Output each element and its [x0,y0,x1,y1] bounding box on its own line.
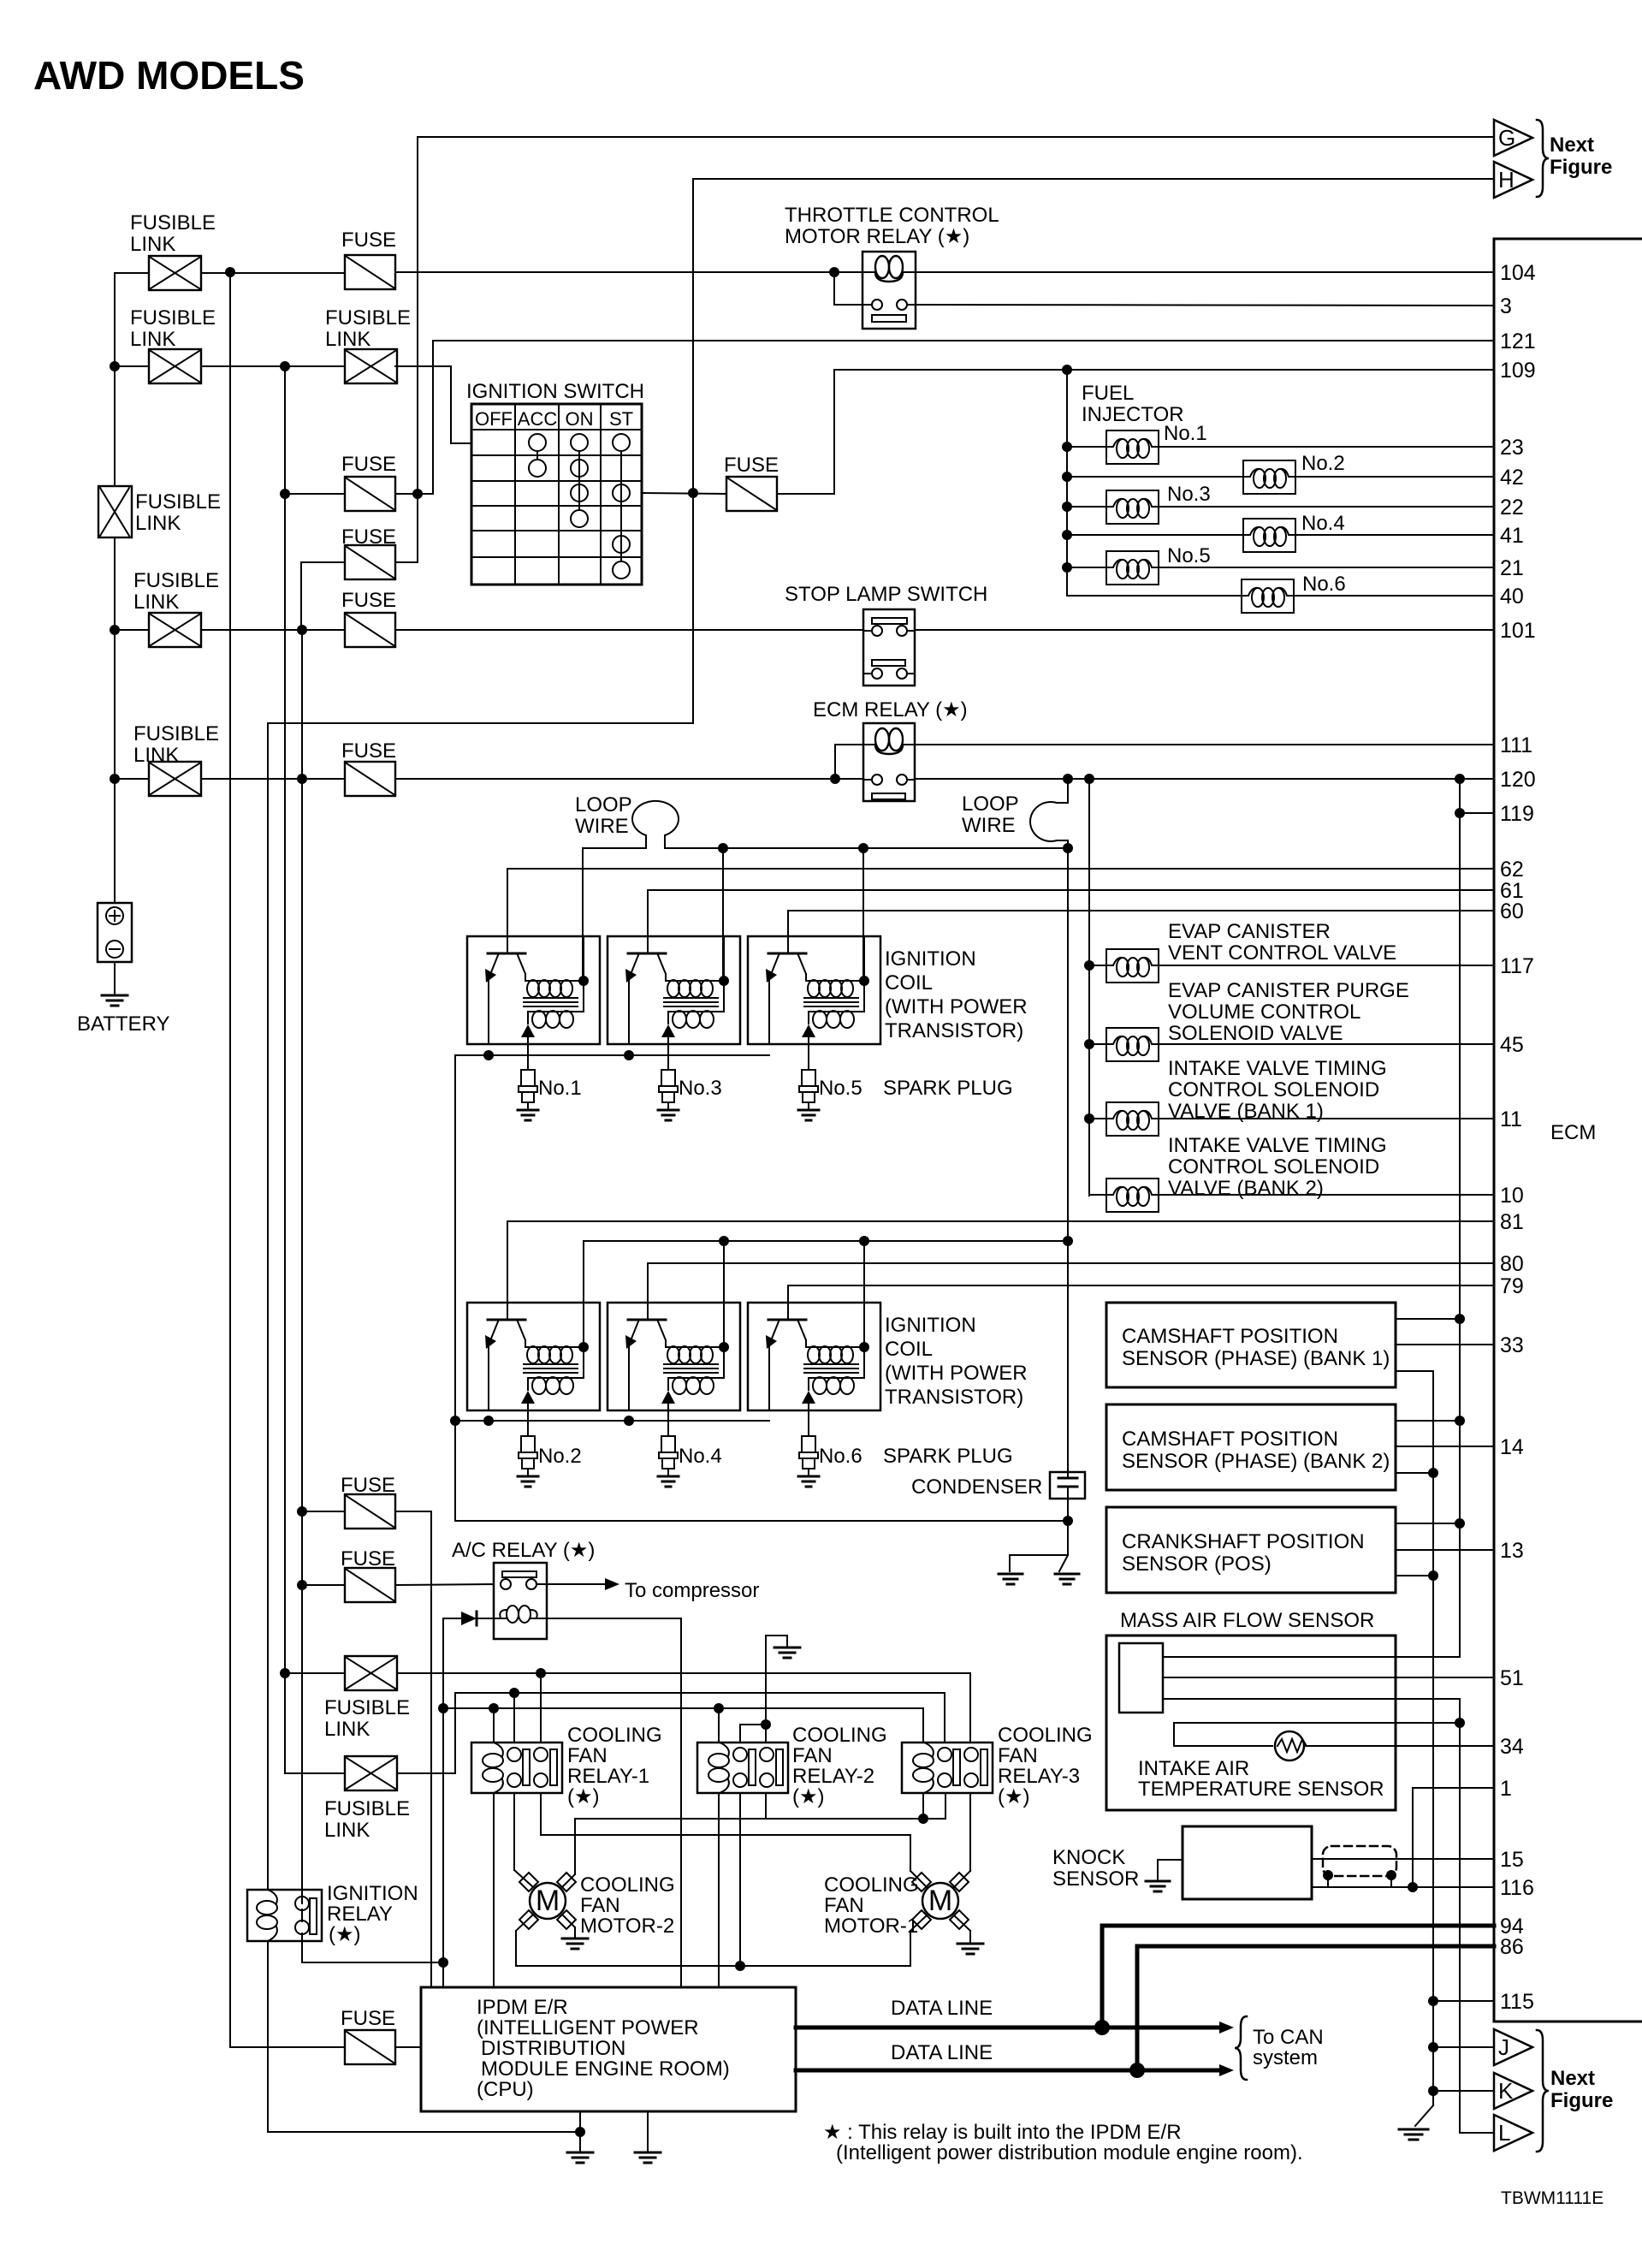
svg-text:VENT CONTROL VALVE: VENT CONTROL VALVE [1168,941,1396,965]
connector K [1433,2073,1532,2109]
svg-text:SENSOR (PHASE) (BANK 1): SENSOR (PHASE) (BANK 1) [1122,1347,1390,1370]
ignition coil module bank1 #3 [748,936,880,1044]
wire relay1 feeds [494,1673,541,1743]
fuse F5 [345,613,395,647]
throttle relay contact [862,300,916,322]
ignition coil module bank2 #2 [608,1303,740,1410]
svg-text:FUSIBLE: FUSIBLE [130,211,216,235]
label FUSE 3 [341,453,396,476]
wire fuse8 row [302,1584,494,1585]
wire 115 [1433,2000,1494,2002]
ignition coil module bank1 #1 [467,936,600,1044]
label COOLING FAN MOTOR-2 [580,1873,675,1938]
wire pin1 branch [1413,1788,1494,1887]
connector H to next figure [1494,162,1532,198]
fuse F9 [345,2030,395,2064]
fuel injector No.4 [1067,519,1494,552]
wire 94 data line thick [1094,1926,1494,2035]
svg-text:FUSIBLE: FUSIBLE [133,569,219,592]
connector J [1433,2029,1532,2065]
label FUSE 9 [341,2007,395,2030]
ignition coil module bank2 #3 [748,1303,880,1410]
wire throttle relay pilot [834,272,1494,306]
fuse F8 [345,1568,395,1602]
svg-text:(WITH POWER: (WITH POWER [885,995,1028,1018]
label FUSE 1 [341,229,396,252]
wire coil bank2 supply bus [584,1236,1068,1345]
svg-text:K: K [1498,2078,1514,2104]
wire 15 shielded [1312,1858,1494,1860]
fusible link FL3 mid [345,349,397,383]
svg-text:SPARK PLUG: SPARK PLUG [883,1445,1013,1468]
svg-text:M: M [536,1885,560,1917]
loop wire 1 [583,801,1068,853]
label No.4 spark plug [679,1445,722,1468]
label solenoid 2 [1168,979,1409,1045]
knock sensor box [1183,1826,1312,1899]
svg-text:42: 42 [1500,466,1524,490]
spark plug No.6 [798,1410,819,1487]
svg-text:OFF: OFF [475,408,513,430]
svg-text:COOLING: COOLING [824,1873,919,1897]
svg-text:TRANSISTOR): TRANSISTOR) [885,1386,1023,1409]
wire sensor ground bus x=1675 [1428,1371,1438,2105]
svg-text:FAN: FAN [567,1744,608,1767]
ignition switch [471,404,642,585]
svg-text:FUSE: FUSE [341,589,396,612]
svg-text:FUSE: FUSE [341,739,396,763]
svg-text:EVAP CANISTER PURGE: EVAP CANISTER PURGE [1168,979,1409,1002]
label IGNITION RELAY [327,1882,418,1946]
svg-text:No.6: No.6 [1302,573,1346,596]
wire 119 [1455,808,1494,818]
label DATA LINE 2 [891,2041,993,2064]
wire coil bank2 emitter ground bus [450,1416,769,1521]
svg-text:22: 22 [1500,496,1524,520]
svg-text:LINK: LINK [135,512,181,535]
spark plug No.4 [658,1410,679,1487]
wire fan power bus 1978 [285,1688,945,1773]
wire relay3 coil bottom [922,1793,924,1819]
fuel injector No.1 [1067,430,1494,464]
title AWD MODELS [33,53,305,98]
label LOOP WIRE 1 [575,793,632,838]
svg-text:SOLENOID VALVE: SOLENOID VALVE [1168,1022,1343,1045]
svg-text:COIL: COIL [885,971,933,994]
wire 61 to coil No.3 base [648,890,1494,936]
label No.6 spark plug [819,1445,862,1468]
ignition coil module bank2 #1 [467,1303,600,1410]
intake air temperature thermistor [1174,1731,1494,1760]
svg-text:No.1: No.1 [1164,422,1207,445]
svg-text:(Intelligent power distributio: (Intelligent power distribution module e… [836,2141,1303,2164]
svg-text:MODULE ENGINE ROOM): MODULE ENGINE ROOM) [481,2057,730,2081]
svg-text:COOLING: COOLING [792,1724,887,1747]
svg-text:Next: Next [1550,2067,1595,2090]
solenoid valve coil 4 [1089,1179,1494,1212]
label FUEL INJECTOR [1082,382,1184,426]
ground motor-2 [562,1938,588,1949]
svg-text:(★): (★) [998,1785,1030,1808]
throttle relay coil [863,256,915,282]
label Next Figure top [1550,134,1612,179]
label COOLING FAN MOTOR-1 [824,1873,919,1938]
svg-text:RELAY: RELAY [327,1903,393,1926]
svg-text:A/C RELAY (★): A/C RELAY (★) [452,1539,595,1562]
svg-text:62: 62 [1500,858,1524,882]
A/C relay coil [494,1606,547,1623]
brace next figure bottom [1537,2030,1549,2152]
ground below condenser right [1055,1574,1079,1584]
label IPDM text [477,1996,730,2101]
fuse F4 [345,545,395,579]
label SPARK PLUG bank1 [883,1077,1013,1100]
svg-text:RELAY-2: RELAY-2 [792,1765,874,1788]
svg-text:FAN: FAN [998,1744,1038,1767]
svg-text:ECM RELAY (★): ECM RELAY (★) [813,698,968,721]
ground below condenser left [999,1574,1023,1584]
ECM box [1494,239,1642,2022]
connector L [1460,2115,1532,2151]
ignition relay coil [257,1890,277,1941]
svg-text:CAMSHAFT POSITION: CAMSHAFT POSITION [1122,1325,1338,1348]
svg-text:DATA LINE: DATA LINE [891,1997,993,2020]
wire A/C coil return down [547,1618,681,1987]
ECM relay contact [863,775,915,799]
svg-text:10: 10 [1500,1184,1524,1208]
stop lamp switch box [863,609,915,686]
wire ignition relay coil return [268,1941,585,2137]
svg-text:TEMPERATURE SENSOR: TEMPERATURE SENSOR [1138,1778,1384,1801]
brace next figure top [1537,120,1549,197]
svg-text:J: J [1498,2034,1509,2060]
spark plug No.5 [798,1044,819,1120]
label camshaft bank2 [1122,1428,1390,1473]
knock shield drains [1323,1870,1396,1887]
wire camshaft bank1 pins [1396,1319,1494,1371]
label FUSIBLE LINK 4 [133,569,219,614]
svg-text:23: 23 [1500,436,1524,460]
svg-text:To CAN: To CAN [1253,2026,1324,2049]
svg-text:STOP LAMP SWITCH: STOP LAMP SWITCH [785,583,987,606]
svg-text:MASS AIR FLOW SENSOR: MASS AIR FLOW SENSOR [1120,1609,1374,1632]
label To CAN system [1253,2026,1324,2069]
svg-text:COOLING: COOLING [567,1724,662,1747]
label A/C RELAY [452,1539,595,1562]
wire bus x=333 [280,366,290,1773]
svg-text:SPARK PLUG: SPARK PLUG [883,1077,1013,1100]
battery [98,903,132,1006]
connector G to next figure [1494,120,1532,156]
svg-text:WIRE: WIRE [575,815,629,838]
footnote line 1 [823,2121,1182,2144]
ground sensor bus [1399,2129,1428,2140]
data line 1 to CAN [796,2022,1234,2033]
wire A/C pilot down [438,1618,448,1987]
svg-text:FUSE: FUSE [341,2007,395,2030]
ignition relay box [247,1890,322,1941]
svg-text:3: 3 [1500,294,1512,318]
wire 60 to coil No.5 base [788,911,1494,936]
svg-text:111: 111 [1500,733,1532,757]
label solenoid 3 [1168,1057,1387,1123]
solenoid valve coil 2 [1089,1028,1494,1061]
ignition relay contacts [295,1897,317,1934]
label solenoid 4 [1168,1134,1387,1200]
svg-text:CONTROL SOLENOID: CONTROL SOLENOID [1168,1078,1379,1101]
wire 104 row [395,267,1494,277]
label TBWM1111E [1501,2188,1603,2208]
label To compressor [625,1579,759,1602]
wire fuse3 out to G and 121 [395,137,1494,562]
svg-text:SENSOR: SENSOR [1052,1867,1139,1891]
svg-text:Figure: Figure [1550,2089,1613,2112]
svg-text:No.4: No.4 [1301,512,1345,535]
wire fuse7 row [302,1511,431,1987]
wire bus x=269 battery to bottom fuse [229,272,231,2047]
svg-text:To compressor: To compressor [625,1579,759,1602]
svg-text:No.1: No.1 [538,1077,582,1100]
ground IPDM 2 [635,2152,661,2163]
wire IPDM ground 2 [647,2111,649,2152]
wire row B [115,361,345,371]
label STOP LAMP SWITCH [785,583,987,606]
label No.3 spark plug [679,1077,722,1100]
wire relay1 contactB to motor1 [541,1793,927,1887]
wire 80 to coil No.4 base [648,1263,1494,1303]
diode A/C relay [443,1612,494,1625]
svg-text:117: 117 [1500,954,1534,978]
fuse F1 [345,255,395,289]
sensor ground bus to ground [1415,2105,1433,2126]
fusible link FL2 [149,349,201,383]
label No.6 [1302,573,1346,596]
svg-text:VALVE (BANK 2): VALVE (BANK 2) [1168,1177,1324,1200]
wire 120 right [915,774,1494,784]
wire 62 to coil No.1 base [507,869,1494,936]
label FUSE 8 [341,1547,395,1570]
svg-text:33: 33 [1500,1333,1524,1357]
label IGNITION SWITCH [466,380,644,403]
loop wire 2 [1030,779,1073,1472]
svg-text:INTAKE VALVE TIMING: INTAKE VALVE TIMING [1168,1057,1387,1080]
wire ECM relay coil pilot [835,745,863,780]
ignition switch column headers [475,408,633,430]
svg-text:No.5: No.5 [819,1077,862,1100]
wire fan power bus 1955 [285,1668,970,1743]
svg-text:TBWM1111E: TBWM1111E [1501,2188,1603,2208]
cooling fan motor-1 [912,1873,969,1929]
svg-text:109: 109 [1500,359,1536,383]
wire relay1 coil to IPDM [493,1793,495,1987]
label FUSIBLE LINK vertical [135,490,221,535]
svg-text:CONDENSER: CONDENSER [911,1475,1042,1499]
wire relay2 contactB down [765,1793,767,1819]
svg-text:MOTOR-2: MOTOR-2 [580,1915,674,1938]
svg-text:(★): (★) [329,1923,361,1946]
svg-text:No.2: No.2 [538,1445,582,1468]
camshaft position sensor bank2 box [1106,1404,1396,1490]
svg-text:INTAKE VALVE TIMING: INTAKE VALVE TIMING [1168,1134,1387,1157]
fuel injector No.5 [1067,551,1494,585]
svg-text:IGNITION: IGNITION [885,947,976,971]
wire MAF ground branch [1163,1699,1465,2133]
ECM relay box [863,723,915,801]
svg-text:21: 21 [1500,556,1524,580]
label No.2 spark plug [538,1445,582,1468]
svg-text:LINK: LINK [324,1819,370,1842]
label COOLING FAN RELAY-2 [792,1724,887,1808]
svg-text:FUSIBLE: FUSIBLE [133,722,219,745]
label FUSIBLE LINK 6 [324,1696,410,1741]
svg-text:RELAY-3: RELAY-3 [998,1765,1080,1788]
svg-text:DISTRIBUTION: DISTRIBUTION [481,2037,625,2060]
wire ignition ON down path [268,493,693,1890]
solenoid valve coil 1 [1089,949,1494,983]
svg-text:(★): (★) [792,1785,825,1808]
cooling fan motor-2 [519,1873,576,1929]
label DATA LINE 1 [891,1997,993,2020]
svg-text:79: 79 [1500,1274,1524,1298]
label No.1 [1164,422,1207,445]
fusible link FL1 [149,256,201,290]
wire IPDM ground 1 [579,2111,581,2152]
svg-text:ACC: ACC [518,408,558,430]
svg-text:ON: ON [566,408,594,430]
svg-text:IGNITION: IGNITION [327,1882,418,1905]
label LOOP WIRE 2 [962,793,1019,837]
fuel injector No.3 [1067,490,1494,524]
svg-text:CONTROL SOLENOID: CONTROL SOLENOID [1168,1155,1379,1179]
label SPARK PLUG bank2 [883,1445,1013,1468]
svg-text:(★): (★) [567,1785,600,1808]
wire intake air temp loop [1174,1723,1460,1746]
svg-text:LINK: LINK [325,328,370,351]
svg-text:15: 15 [1500,1848,1524,1872]
label No.4 [1301,512,1345,535]
wire bus x=353 [297,625,307,1903]
wire ignition ground bus [455,1516,1073,1526]
svg-text:14: 14 [1500,1435,1524,1459]
svg-text:FUSE: FUSE [341,1547,395,1570]
svg-text:LINK: LINK [130,233,175,256]
svg-text:116: 116 [1500,1876,1534,1900]
label KNOCK SENSOR [1052,1846,1139,1891]
wire injector feed bus [1062,370,1072,596]
svg-text:LOOP: LOOP [962,793,1019,816]
label FUSIBLE LINK 5 [133,722,219,767]
label No.5 [1167,544,1211,567]
svg-text:41: 41 [1500,524,1524,548]
svg-text:120: 120 [1500,768,1536,792]
wire battery positive bus x=134 [114,273,116,903]
label No.1 spark plug [538,1077,582,1100]
svg-text:FUSE: FUSE [724,454,779,477]
svg-text:LINK: LINK [133,591,179,614]
ground IPDM 1 [567,2152,593,2163]
ECM label [1550,1121,1596,1144]
svg-text:BATTERY: BATTERY [77,1012,169,1036]
svg-text:FAN: FAN [792,1744,833,1767]
svg-text:104: 104 [1500,261,1536,285]
svg-text:IPDM E/R: IPDM E/R [477,1996,568,2019]
svg-text:LINK: LINK [324,1718,370,1741]
svg-text:SENSOR (PHASE) (BANK 2): SENSOR (PHASE) (BANK 2) [1122,1450,1390,1473]
label FUSE 6 [341,739,396,763]
ECM pin number labels [1500,261,1536,2014]
spark plug No.3 [658,1044,679,1120]
label FUSIBLE LINK 1 [130,211,216,256]
svg-text:EVAP CANISTER: EVAP CANISTER [1168,920,1331,943]
wire MAF to 120 net [1163,1656,1460,1658]
svg-text:FAN: FAN [580,1894,620,1917]
svg-text:CRANKSHAFT POSITION: CRANKSHAFT POSITION [1122,1530,1365,1553]
wire fuse3 feed [285,493,345,495]
wire solenoid feed bus x=1273 [1084,779,1094,1196]
svg-text:115: 115 [1500,1990,1534,2014]
svg-text:MOTOR-1: MOTOR-1 [824,1915,918,1938]
svg-text:LINK: LINK [133,744,179,767]
svg-text:80: 80 [1500,1252,1524,1276]
svg-text:SENSOR (POS): SENSOR (POS) [1122,1553,1272,1576]
svg-text:INTAKE AIR: INTAKE AIR [1138,1757,1249,1780]
fusible link FL7 [345,1756,397,1790]
label IGNITION COIL bank2 [885,1314,1028,1409]
wire motor2 right to relay3 [563,1793,945,1886]
svg-text:M: M [928,1885,952,1917]
wire 101 row [115,629,1494,631]
svg-text:FUSE: FUSE [341,229,396,252]
label FUSIBLE LINK 3 [325,306,411,351]
IPDM E/R box [421,1987,796,2111]
svg-text:COOLING: COOLING [998,1724,1093,1747]
label CONDENSER [911,1475,1042,1499]
wire 51 [1163,1677,1494,1678]
label FUSIBLE LINK 2 [130,306,216,351]
spark plug No.1 [518,1044,538,1120]
label THROTTLE CONTROL MOTOR RELAY [785,204,999,248]
label FUSE 7 [341,1474,395,1497]
junction dots on battery bus [110,361,120,784]
knock sensor case ground [1146,1860,1183,1891]
label FUSE 2 [724,454,779,477]
fusible link FL vertical [98,486,132,537]
fuse F7 [345,1494,395,1529]
wire 79 to coil No.6 base [788,1285,1494,1303]
svg-text:WIRE: WIRE [962,814,1016,837]
svg-text:101: 101 [1500,619,1536,643]
svg-text:Figure: Figure [1550,156,1612,179]
wire motor1 return [910,1915,927,1966]
label MASS AIR FLOW SENSOR [1120,1609,1374,1632]
wire 81 to coil No.2 base [507,1221,1494,1303]
wire condenser to grounds [1010,1499,1068,1571]
svg-text:FAN: FAN [824,1894,864,1917]
wire 120 row left [115,774,863,784]
svg-text:ECM: ECM [1550,1121,1596,1144]
wire relay2 coil to IPDM [718,1793,720,1987]
label solenoid 1 [1168,920,1396,965]
wire H line [693,179,1494,493]
svg-text:No.2: No.2 [1301,452,1345,475]
fuel injector No.6 [1067,579,1494,613]
label FUSIBLE LINK 7 [324,1797,410,1842]
label BATTERY [77,1012,169,1036]
wire ignition relay out [302,1933,443,1962]
cooling fan relay-1 [471,1743,562,1793]
svg-text:RELAY-1: RELAY-1 [567,1765,649,1788]
wire motor2 return [516,1915,910,1966]
